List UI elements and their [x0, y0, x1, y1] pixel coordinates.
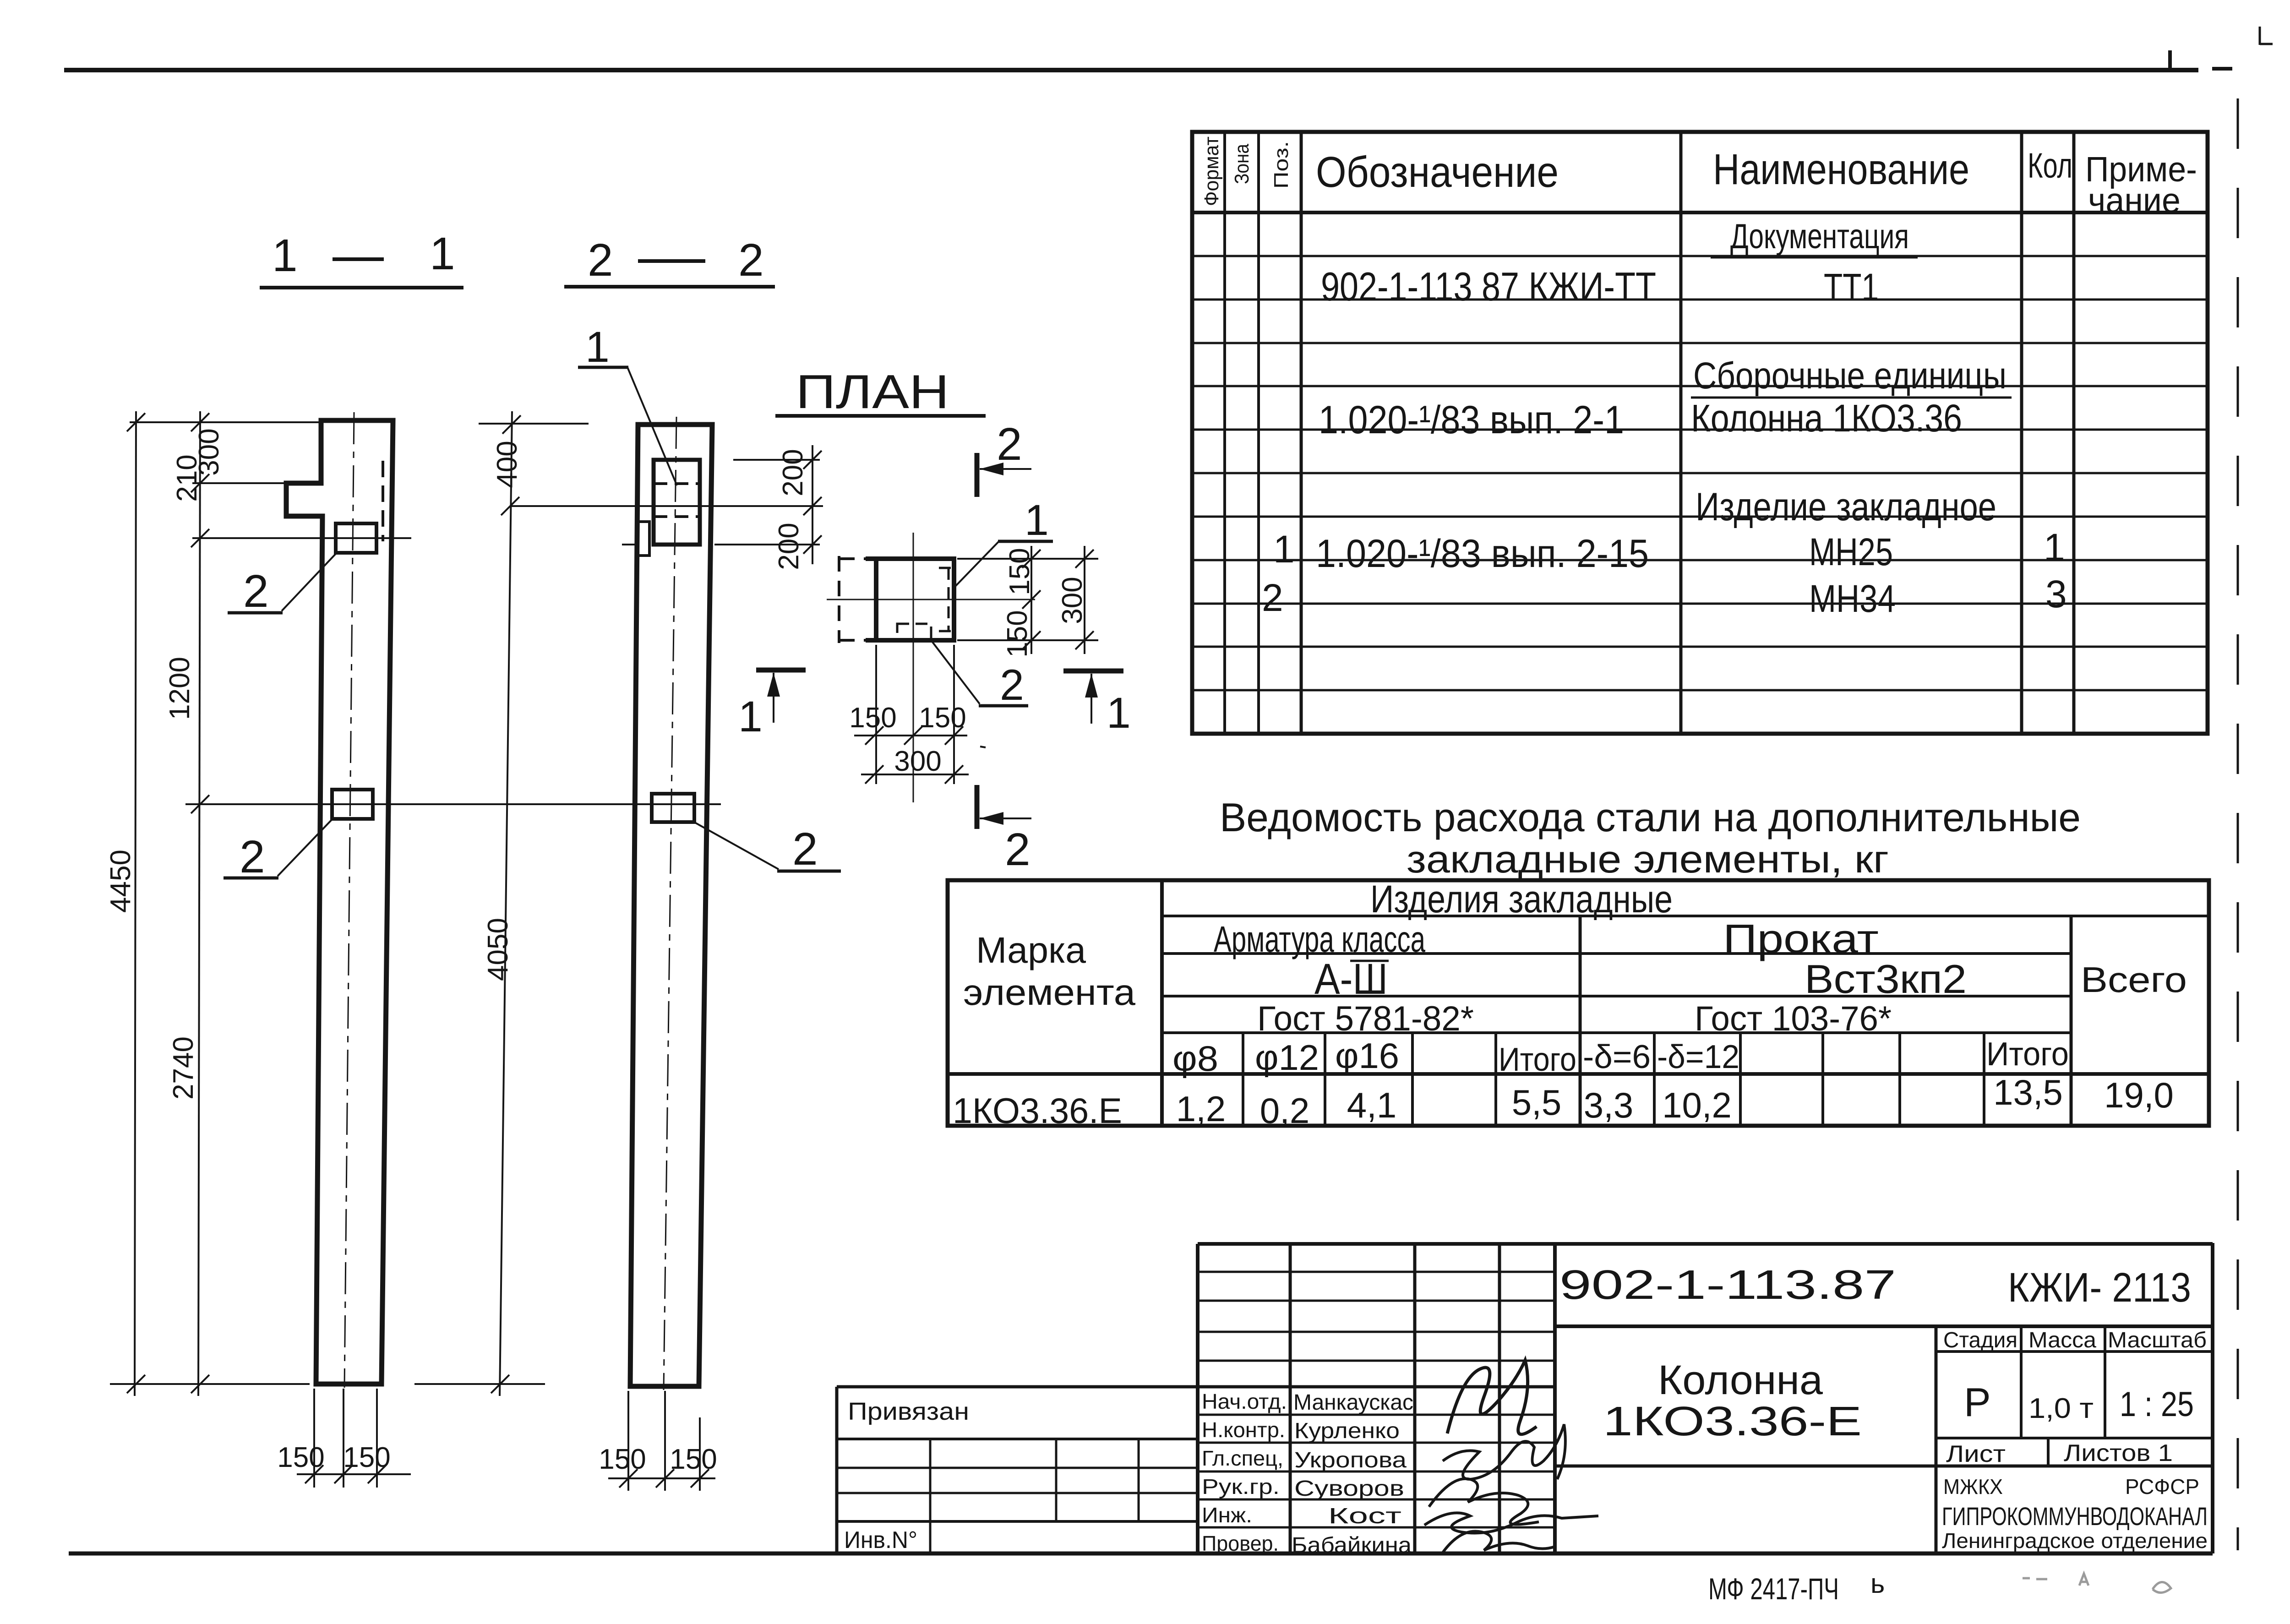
svg-text:МН25: МН25	[1809, 530, 1893, 573]
signature scribble 4	[1424, 1513, 1598, 1533]
small side notch plate (view 2-2)	[639, 522, 649, 556]
svg-text:элемента: элемента	[963, 972, 1136, 1013]
svg-text:-δ=6: -δ=6	[1583, 1039, 1651, 1075]
svg-text:Стадия: Стадия	[1943, 1328, 2017, 1352]
svg-text:10,2: 10,2	[1662, 1085, 1732, 1125]
section header 2-2	[588, 234, 764, 286]
svg-text:200: 200	[773, 523, 805, 570]
svg-text:Масштаб: Масштаб	[2108, 1328, 2207, 1352]
svg-text:4450: 4450	[105, 850, 136, 913]
svg-text:Инж.: Инж.	[1202, 1503, 1252, 1527]
svg-text:Рук.гр.: Рук.гр.	[1202, 1475, 1280, 1499]
svg-text:150: 150	[919, 702, 966, 734]
column 1-1 centerline	[344, 412, 354, 1388]
datum dot	[980, 747, 986, 747]
svg-text:-δ=12: -δ=12	[1657, 1039, 1739, 1075]
svg-text:Лист: Лист	[1946, 1441, 2006, 1467]
svg-text:902-1-113 87 КЖИ-ТТ: 902-1-113 87 КЖИ-ТТ	[1321, 264, 1656, 309]
svg-text:150: 150	[670, 1444, 717, 1475]
plan right dims 150/150/300	[957, 546, 1098, 654]
svg-text:Бабайкина: Бабайкина	[1292, 1533, 1412, 1558]
svg-text:1: 1	[1025, 496, 1049, 545]
svg-text:Нач.отд.: Нач.отд.	[1202, 1390, 1287, 1413]
svg-text:3: 3	[2045, 572, 2067, 616]
svg-text:1КО3.36.Е: 1КО3.36.Е	[953, 1090, 1122, 1131]
svg-text:Гост 5781-82*: Гост 5781-82*	[1257, 999, 1474, 1038]
vedomost grid	[948, 880, 2209, 1126]
svg-text:Формат: Формат	[1200, 136, 1223, 206]
column 2-2 outline	[630, 425, 712, 1386]
svg-text:2: 2	[243, 566, 269, 617]
svg-text:4,1: 4,1	[1347, 1085, 1396, 1125]
svg-text:Провер.: Провер.	[1202, 1531, 1279, 1555]
plan centerlines	[827, 599, 1035, 600]
svg-text:КЖИ- 2113: КЖИ- 2113	[2008, 1265, 2191, 1311]
svg-text:Н.контр.: Н.контр.	[1202, 1418, 1285, 1442]
svg-text:150: 150	[849, 702, 896, 734]
svg-text:2: 2	[792, 823, 818, 875]
embedded plate 2 lower (view 1-1)	[332, 790, 373, 819]
embedded plate 1 (view 2-2)	[654, 460, 700, 545]
svg-text:Итого: Итого	[1986, 1036, 2069, 1073]
svg-text:Марка: Марка	[976, 930, 1086, 970]
svg-text:Р: Р	[1964, 1379, 1991, 1425]
bottom dim 150/150 column 1-1	[297, 1389, 411, 1488]
svg-text:Суворов: Суворов	[1294, 1477, 1404, 1501]
svg-text:2740: 2740	[168, 1036, 199, 1100]
svg-text:150: 150	[599, 1444, 646, 1475]
svg-text:φ12: φ12	[1255, 1037, 1319, 1078]
svg-text:Гост 103-76*: Гост 103-76*	[1695, 999, 1892, 1038]
section header 1-1	[272, 228, 455, 281]
signature name labels	[1292, 1390, 1413, 1558]
svg-text:закладные элементы, кг: закладные элементы, кг	[1407, 838, 1889, 881]
svg-text:1.020-¹/83 вып. 2-15: 1.020-¹/83 вып. 2-15	[1316, 532, 1649, 576]
spec table grid	[1192, 132, 2208, 734]
signature scribble 5	[1443, 1531, 1555, 1553]
svg-text:Масса: Масса	[2028, 1328, 2096, 1352]
svg-text:Инв.N°: Инв.N°	[844, 1527, 917, 1553]
signature scribble 2	[1443, 1424, 1565, 1479]
faint format marks	[2023, 1574, 2171, 1593]
svg-text:Документация: Документация	[1730, 217, 1909, 256]
svg-text:Привязан: Привязан	[848, 1398, 969, 1425]
svg-text:300: 300	[894, 746, 941, 777]
column 1-1 hidden edge dashed	[382, 461, 384, 541]
plan plate 1 hidden bracket	[939, 568, 954, 631]
svg-text:1: 1	[1273, 528, 1295, 571]
svg-text:Колонна 1КО3.36: Колонна 1КО3.36	[1691, 397, 1962, 440]
embedded plate 2 upper (view 1-1)	[336, 523, 376, 553]
svg-text:Сборочные единицы: Сборочные единицы	[1693, 355, 2006, 397]
svg-text:1: 1	[272, 230, 298, 281]
svg-text:А-Ш: А-Ш	[1314, 955, 1388, 1003]
svg-text:150: 150	[277, 1442, 324, 1473]
dim extension lines column 2-2	[414, 411, 823, 1396]
svg-text:Гл.спец,: Гл.спец,	[1202, 1446, 1283, 1470]
svg-text:ТТ1: ТТ1	[1824, 266, 1879, 309]
svg-text:Зона: Зона	[1231, 144, 1253, 184]
svg-text:Колонна: Колонна	[1658, 1357, 1823, 1403]
svg-text:2: 2	[1005, 824, 1030, 875]
plan plate 2 hidden rect	[897, 624, 931, 640]
svg-text:ГИПРОКОММУНВОДОКАНАЛ: ГИПРОКОММУНВОДОКАНАЛ	[1942, 1502, 2208, 1531]
svg-text:400: 400	[491, 441, 523, 488]
plan column outline solid part	[866, 559, 954, 640]
svg-text:1 : 25: 1 : 25	[2120, 1385, 2194, 1424]
section marker 2 top	[975, 453, 980, 497]
plan bottom dims 150/150/300	[854, 645, 969, 784]
svg-text:Наименование: Наименование	[1713, 145, 1969, 194]
svg-text:Листов 1: Листов 1	[2064, 1440, 2173, 1466]
svg-text:1: 1	[738, 692, 763, 741]
svg-text:φ16: φ16	[1335, 1035, 1399, 1076]
vedomost header А-III	[1350, 960, 1389, 962]
svg-text:ПЛАН: ПЛАН	[796, 365, 949, 419]
svg-text:1.020-¹/83 вып. 2-1: 1.020-¹/83 вып. 2-1	[1319, 398, 1624, 442]
svg-text:2: 2	[1262, 576, 1283, 619]
column 1-1 outline	[286, 420, 393, 1384]
svg-text:2: 2	[997, 419, 1022, 470]
embedded plate 2 lower (view 2-2)	[652, 794, 694, 822]
svg-text:1: 1	[585, 323, 610, 371]
svg-text:Итого: Итого	[1499, 1041, 1576, 1078]
svg-text:2: 2	[588, 234, 613, 286]
svg-text:1,0 т: 1,0 т	[2028, 1393, 2094, 1424]
svg-text:Ленинградское отделение: Ленинградское отделение	[1942, 1529, 2208, 1553]
svg-text:Кост: Кост	[1328, 1504, 1401, 1528]
svg-text:Изделие закладное: Изделие закладное	[1696, 485, 1996, 529]
svg-text:1КО3.36-Е: 1КО3.36-Е	[1603, 1399, 1862, 1444]
svg-text:чание: чание	[2088, 181, 2181, 220]
sheet corner mark top right	[2260, 27, 2273, 45]
svg-text:МН34: МН34	[1809, 577, 1896, 620]
svg-text:МЖКХ: МЖКХ	[1943, 1475, 2003, 1499]
svg-text:Поз.: Поз.	[1270, 141, 1292, 189]
svg-text:Вст3кп2: Вст3кп2	[1805, 956, 1967, 1002]
svg-text:2: 2	[738, 234, 764, 286]
svg-text:Манкаускас: Манкаускас	[1293, 1390, 1413, 1415]
svg-text:5,5: 5,5	[1512, 1082, 1561, 1123]
svg-text:2: 2	[240, 831, 265, 883]
svg-text:300: 300	[1057, 577, 1088, 624]
svg-text:Арматура класса: Арматура класса	[1214, 919, 1425, 959]
svg-text:210: 210	[171, 454, 203, 501]
svg-text:РСФСР: РСФСР	[2125, 1475, 2199, 1499]
svg-text:1: 1	[1107, 689, 1131, 737]
svg-text:200: 200	[777, 449, 809, 496]
bottom dim 150/150 column 2-2	[608, 1391, 715, 1491]
signature role labels	[1202, 1390, 1287, 1555]
svg-text:Ведомость расхода стали на доп: Ведомость расхода стали на дополнительны…	[1220, 795, 2081, 840]
svg-text:1: 1	[430, 228, 455, 279]
svg-text:150: 150	[343, 1442, 390, 1473]
svg-text:1: 1	[2044, 526, 2065, 569]
sheet frame right edge dashed	[2237, 98, 2239, 1550]
signature scribble 3	[1429, 1479, 1539, 1525]
svg-text:Изделия закладные: Изделия закладные	[1370, 877, 1673, 921]
sheet frame bottom line	[69, 1552, 2213, 1556]
section marker 1 right	[1063, 669, 1123, 674]
svg-text:МФ 2417-ПЧ: МФ 2417-ПЧ	[1708, 1572, 1839, 1606]
plan hidden outline dashed part	[839, 556, 867, 643]
column 2-2 centerline	[664, 417, 676, 1390]
svg-text:150: 150	[1004, 548, 1036, 595]
sheet frame top line	[64, 50, 2232, 70]
svg-text:1,2: 1,2	[1176, 1089, 1226, 1129]
svg-text:ь: ь	[1870, 1568, 1885, 1599]
svg-text:902-1-113.87: 902-1-113.87	[1559, 1262, 1896, 1308]
svg-text:150: 150	[1002, 610, 1033, 657]
svg-text:Укропова: Укропова	[1294, 1448, 1407, 1472]
signature scribble 1	[1447, 1360, 1537, 1434]
svg-text:φ8: φ8	[1172, 1038, 1218, 1079]
svg-text:1200: 1200	[164, 657, 196, 720]
svg-text:2: 2	[1000, 661, 1024, 709]
svg-text:4050: 4050	[482, 918, 514, 981]
title block grid	[837, 1243, 2213, 1553]
svg-text:Прокат: Прокат	[1723, 916, 1879, 961]
section marker 2 bottom	[975, 785, 980, 829]
svg-text:Всего: Всего	[2081, 959, 2187, 1000]
svg-text:13,5: 13,5	[1993, 1072, 2063, 1112]
dim ticks column 2-2	[491, 415, 822, 1393]
dim ticks column 1-1	[127, 413, 209, 1393]
svg-text:0,2: 0,2	[1260, 1090, 1309, 1131]
svg-text:19,0: 19,0	[2104, 1075, 2174, 1115]
section marker 1 left	[756, 668, 806, 673]
svg-text:Кол: Кол	[2028, 146, 2072, 185]
svg-text:Обозначение: Обозначение	[1316, 148, 1559, 196]
svg-text:Курленко: Курленко	[1294, 1419, 1400, 1443]
svg-text:3,3: 3,3	[1584, 1085, 1633, 1125]
dim extension lines column 1-1	[110, 411, 721, 1396]
